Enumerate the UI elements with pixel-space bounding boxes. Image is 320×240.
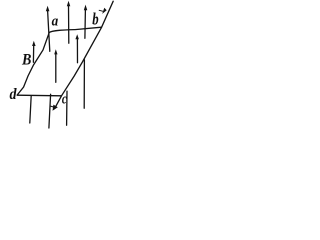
arrowhead axis top (points up-right) [102,8,107,14]
svg-text:B: B [21,51,32,68]
arrowhead field line B1 [46,6,50,11]
wire: right edge c-b with axis extensions [55,1,114,108]
field line B3 shaft (x=85 top) [84,10,87,39]
field line B5 shaft (inner mid) [55,54,57,83]
svg-text:d: d [10,86,17,103]
arrowhead field line B3 [84,5,88,11]
axis arrow barb top [99,9,102,12]
field line B8 segment (below c) [66,91,68,125]
svg-text:c: c [62,92,67,108]
field line B2 shaft (x=68.5 tall) [68,6,70,44]
field line B1 shaft (x=47.5 top) [48,11,50,52]
field line B7 segment (lower right of edge) [83,60,85,108]
field line B4 shaft (B-label arrow) [32,46,34,63]
arrowhead field line B4 [32,41,36,46]
wire: top edge a-b of loop [49,27,101,32]
svg-text:b: b [92,10,98,29]
field line B9 segment (below edge mid) [49,94,51,128]
field line B10 segment (below edge left) [30,96,31,123]
wire: left edge d-a of loop [17,32,49,95]
arrowhead field line B6 [75,34,79,39]
wire: bottom edge d-c of loop [17,94,61,97]
arrowhead field line B2 [67,1,71,6]
svg-text:a: a [52,14,59,30]
field line B6 shaft (inner right) [76,39,78,63]
arrowhead field line B5 [54,49,57,54]
axis arrow barb bottom [50,106,53,107]
arrowhead axis bottom (points down-left) [53,105,58,111]
